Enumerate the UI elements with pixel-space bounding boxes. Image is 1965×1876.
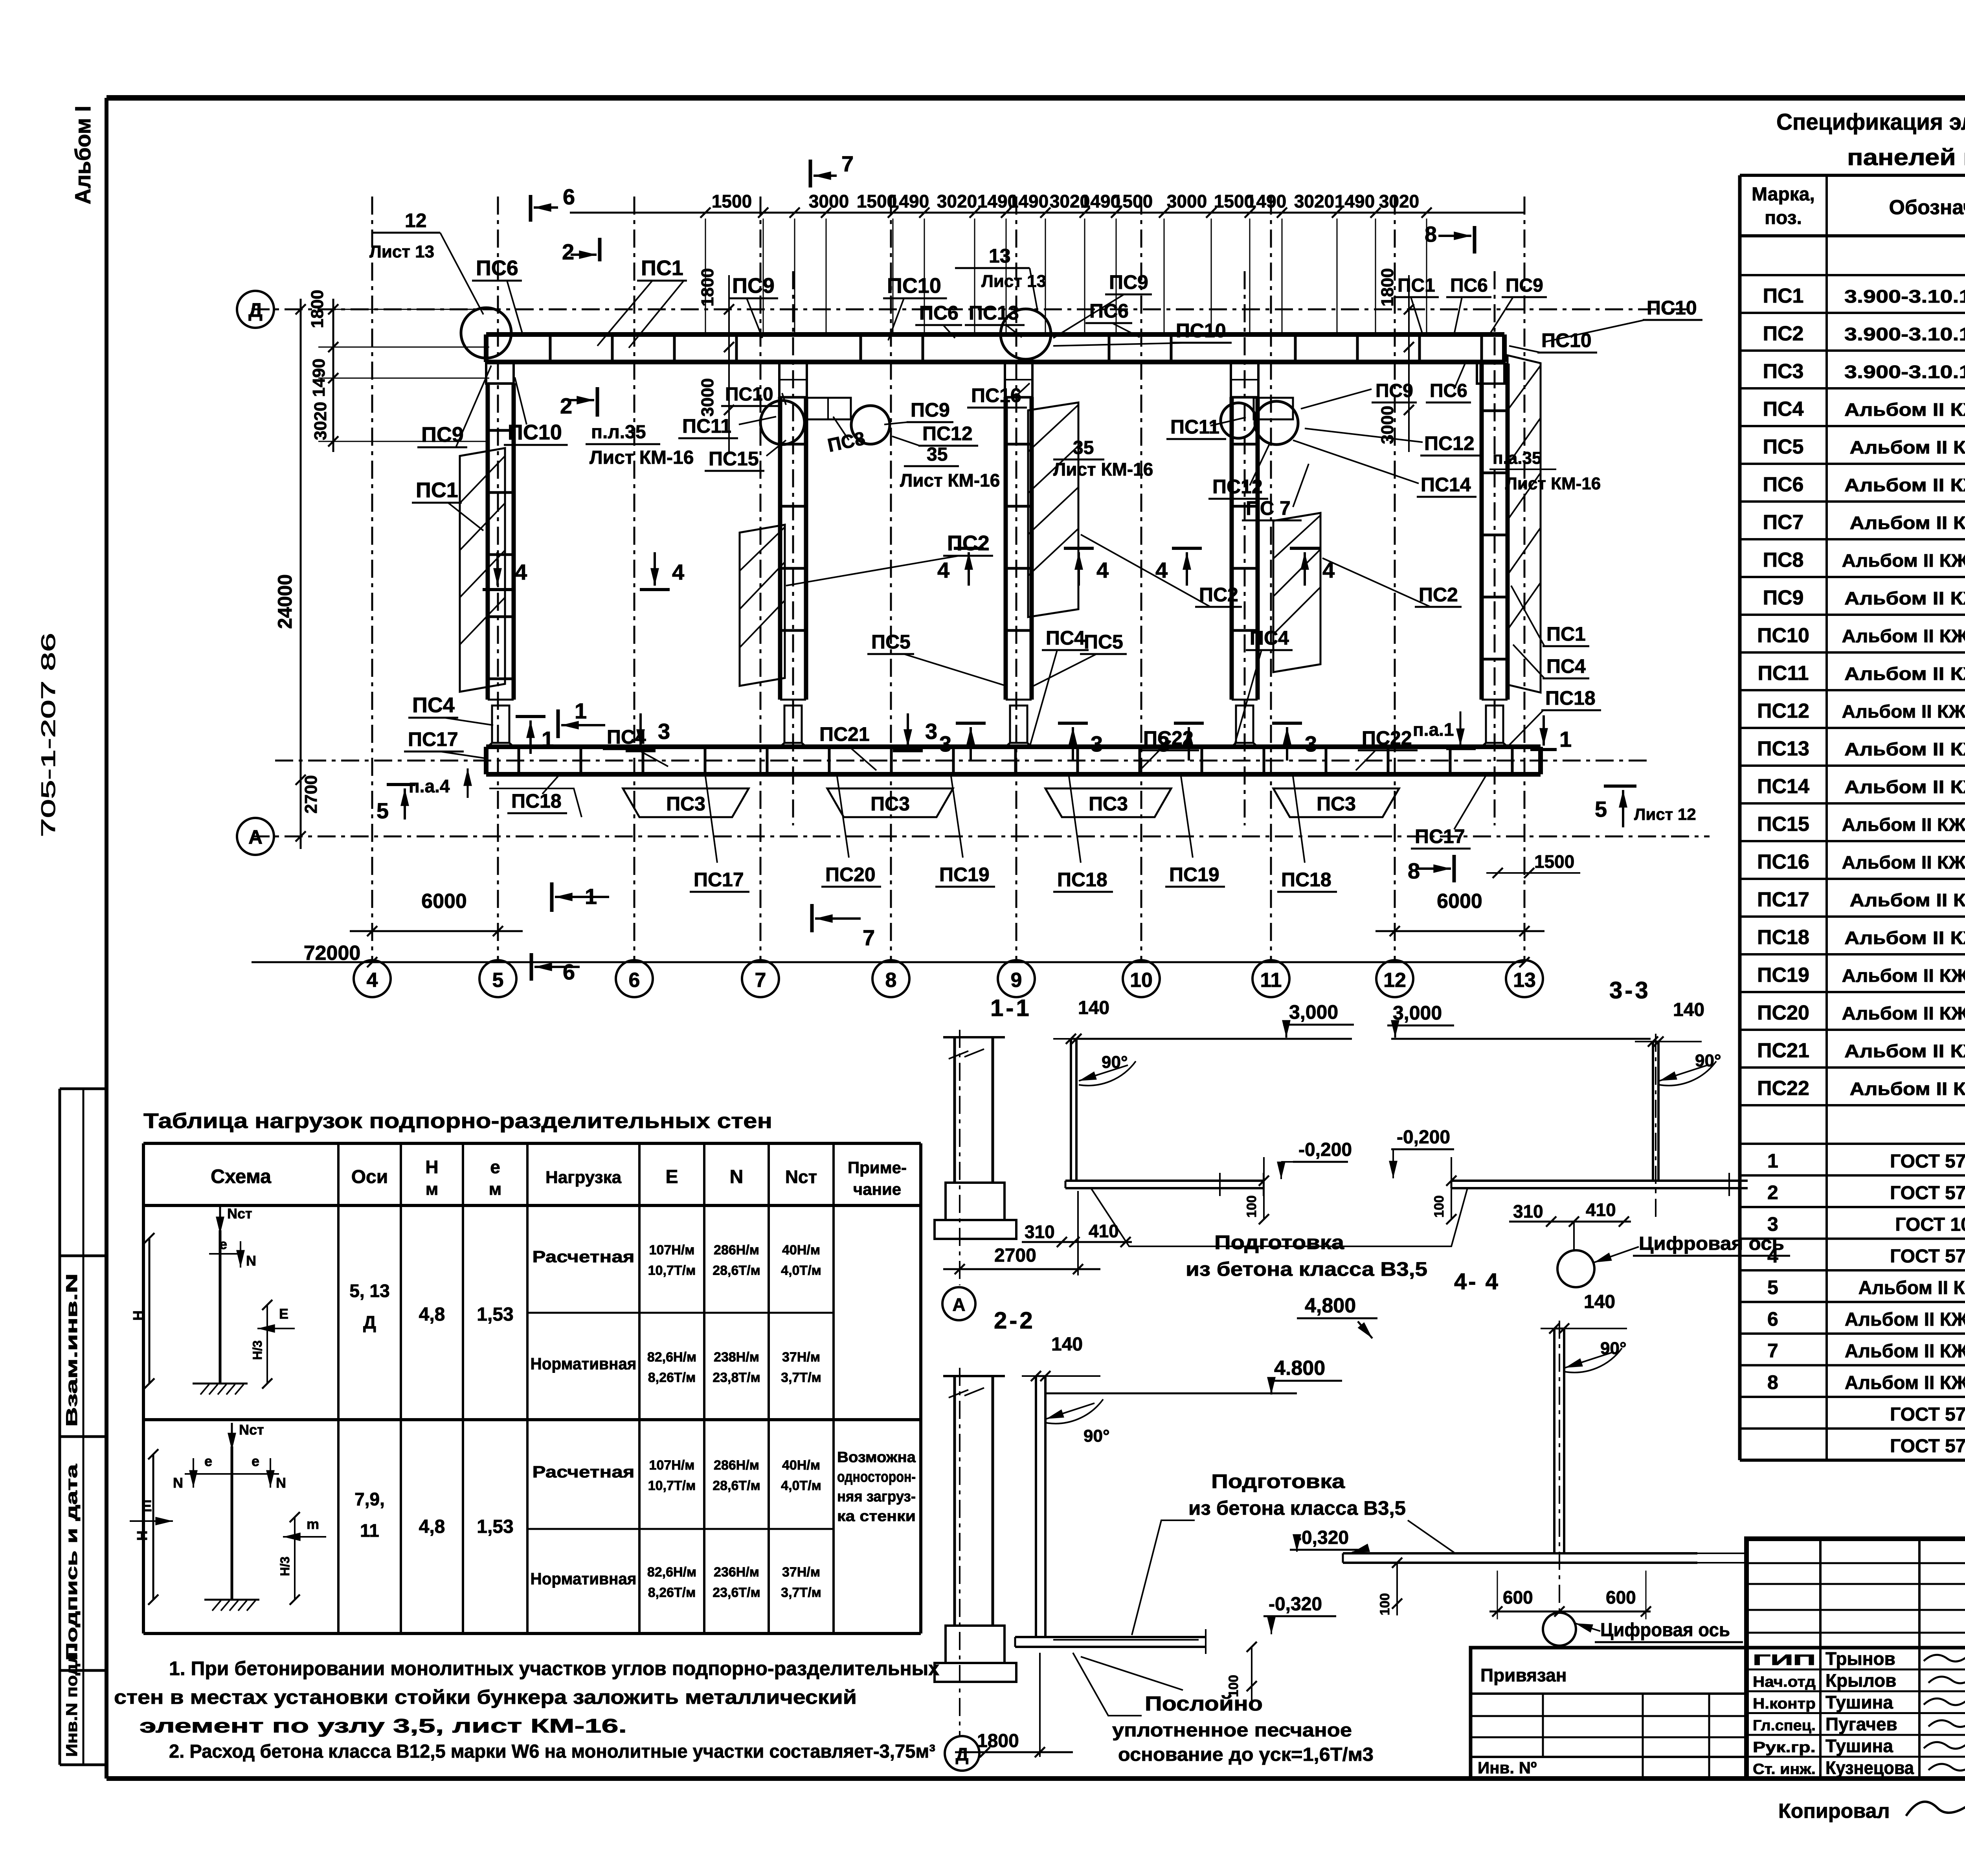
svg-text:Обозначение: Обозначение (1889, 196, 1965, 219)
svg-text:100: 100 (1244, 1195, 1259, 1218)
svg-text:ПС16: ПС16 (1757, 851, 1809, 873)
svg-text:ПС1: ПС1 (416, 478, 458, 502)
section 4-4 axis circle (1543, 1613, 1576, 1646)
svg-text:ПС7: ПС7 (1763, 511, 1804, 534)
svg-text:ПС8: ПС8 (1763, 549, 1804, 571)
svg-text:310: 310 (1513, 1201, 1543, 1222)
svg-text:Лист КМ-16: Лист КМ-16 (900, 470, 1000, 491)
svg-text:286Н/м: 286Н/м (714, 1243, 759, 1258)
svg-text:140: 140 (1673, 1000, 1704, 1020)
svg-text:Тушина: Тушина (1825, 1692, 1893, 1712)
svg-text:Подготовка: Подготовка (1211, 1470, 1345, 1492)
section 1-1 podgotovka wedge (1091, 1188, 1467, 1246)
svg-text:100: 100 (1377, 1593, 1392, 1615)
svg-text:Nст: Nст (227, 1205, 252, 1222)
svg-text:5, 13: 5, 13 (349, 1281, 389, 1301)
svg-text:Альбом II КЖ.И. 39.00-01: Альбом II КЖ.И. 39.00-01 (1842, 701, 1965, 722)
svg-text:90°: 90° (1084, 1426, 1110, 1446)
svg-text:панелей подпорно-разделительны: панелей подпорно-разделительных стен (1847, 145, 1965, 170)
svg-text:односторон-: односторон- (837, 1469, 916, 1485)
svg-text:ПС10: ПС10 (508, 421, 562, 444)
margin stamp boxes (60, 1088, 107, 1090)
svg-text:ПС6: ПС6 (919, 302, 959, 324)
section 2-2 axis circle D (945, 1736, 979, 1771)
svg-text:1800: 1800 (977, 1731, 1019, 1751)
svg-text:28,6Т/м: 28,6Т/м (713, 1263, 760, 1278)
svg-text:2700: 2700 (301, 775, 321, 814)
svg-text:ПС19: ПС19 (939, 864, 990, 886)
svg-text:Н: Н (425, 1157, 438, 1177)
svg-text:3: 3 (925, 719, 937, 744)
section 4-4 base slab (1343, 1552, 1697, 1554)
section 1-1 wall (1070, 1039, 1072, 1181)
svg-text:ПС4: ПС4 (412, 693, 455, 717)
svg-text:Альбом II КЖ.И.42.00-01: Альбом II КЖ.И.42.00-01 (1842, 965, 1965, 986)
svg-text:1,53: 1,53 (477, 1516, 513, 1537)
svg-text:Альбом II КЖ.И.42.00: Альбом II КЖ.И.42.00 (1850, 890, 1965, 910)
svg-text:Н/3: Н/3 (250, 1340, 264, 1360)
svg-text:6: 6 (563, 184, 575, 209)
svg-text:Альбом II КЖ.И. 40.00-01: Альбом II КЖ.И. 40.00-01 (1842, 852, 1965, 873)
svg-text:3.900-3.10.1 05.00-04: 3.900-3.10.1 05.00-04 (1844, 324, 1965, 344)
section 4-4 90 deg (1565, 1348, 1622, 1373)
svg-text:8,26Т/м: 8,26Т/м (648, 1585, 696, 1600)
svg-text:Крылов: Крылов (1825, 1670, 1896, 1691)
svg-text:е: е (490, 1157, 500, 1177)
svg-text:ГОСТ 103-76*: ГОСТ 103-76* (1895, 1215, 1965, 1235)
svg-text:Лист 12: Лист 12 (1634, 805, 1696, 823)
svg-text:п.а.4: п.а.4 (409, 776, 450, 796)
plan dim chain near wall2 (728, 275, 730, 452)
svg-text:100: 100 (1432, 1195, 1447, 1218)
svg-text:5: 5 (492, 969, 504, 992)
svg-text:3020: 3020 (1294, 191, 1334, 211)
svg-text:Nст: Nст (785, 1167, 817, 1187)
svg-text:3: 3 (939, 731, 951, 756)
svg-text:ПС14: ПС14 (1757, 775, 1809, 798)
svg-text:Альбом II КЖ.И.37.00-01: Альбом II КЖ.И.37.00-01 (1842, 550, 1965, 571)
svg-text:E: E (279, 1306, 288, 1322)
section 2-2 column (943, 1375, 1005, 1377)
svg-text:3000: 3000 (698, 378, 717, 417)
section 1-1 dim 2700 (1077, 1191, 1079, 1275)
svg-text:2-2: 2-2 (994, 1307, 1035, 1334)
plan top wall band (486, 332, 1504, 337)
svg-text:3000: 3000 (809, 191, 849, 211)
svg-text:Альбом II КЖ.И. 34.00: Альбом II КЖ.И. 34.00 (1844, 399, 1965, 420)
section 1-1 column (943, 1036, 1005, 1038)
svg-text:ПС17: ПС17 (694, 869, 744, 891)
svg-text:ПС9: ПС9 (732, 274, 775, 298)
section 4-4 axis line (1559, 1321, 1560, 1613)
plan hatched panel right wall (1508, 355, 1541, 693)
plan flags 4 (483, 588, 512, 591)
title block privyazan extension box (1471, 1648, 1746, 1779)
plan horizontal axis D (252, 309, 1694, 311)
svg-text:3020: 3020 (937, 191, 977, 211)
svg-text:3,000: 3,000 (1289, 1001, 1338, 1023)
svg-text:600: 600 (1606, 1587, 1636, 1608)
svg-text:Альбом II КЖ.И.35.00: Альбом II КЖ.И.35.00 (1850, 437, 1965, 458)
svg-text:3: 3 (1767, 1213, 1778, 1235)
svg-text:ПС1: ПС1 (1546, 623, 1586, 645)
svg-text:6: 6 (1767, 1308, 1778, 1330)
svg-text:ПС4: ПС4 (1546, 655, 1586, 677)
plan junction detail circle wall3 (1001, 309, 1051, 359)
plan dim chain near wall4 (1408, 275, 1410, 452)
svg-text:3,000: 3,000 (1393, 1002, 1442, 1024)
svg-text:ПС9: ПС9 (1375, 380, 1413, 401)
svg-text:ПС10: ПС10 (887, 274, 941, 298)
svg-text:Оси: Оси (351, 1167, 388, 1187)
svg-text:Расчетная: Расчетная (533, 1463, 635, 1481)
section 3-3 base slab (1451, 1180, 1748, 1182)
svg-text:из бетона класса В3,5: из бетона класса В3,5 (1188, 1497, 1406, 1519)
svg-text:28,6Т/м: 28,6Т/м (713, 1478, 760, 1493)
svg-text:ПС11: ПС11 (1170, 416, 1219, 438)
svg-text:элемент по узлу 3,5, лист КМ-1: элемент по узлу 3,5, лист КМ-16. (140, 1715, 627, 1737)
svg-text:ПС3: ПС3 (1763, 360, 1804, 383)
svg-text:ПС6: ПС6 (1763, 473, 1804, 496)
svg-text:3: 3 (658, 719, 670, 744)
svg-text:А: А (952, 1294, 965, 1315)
svg-text:8: 8 (1425, 222, 1437, 246)
plan hatched panel wall3 (1028, 402, 1078, 617)
svg-text:82,6Н/м: 82,6Н/м (647, 1350, 696, 1365)
plan hatched panel PS1 left wall (460, 448, 505, 692)
svg-text:7: 7 (863, 925, 875, 950)
svg-text:ПС20: ПС20 (825, 864, 876, 886)
svg-text:236Н/м: 236Н/м (714, 1565, 759, 1580)
svg-text:Н.контр: Н.контр (1753, 1696, 1816, 1712)
plan grid axis lines (371, 197, 373, 960)
svg-text:4,0Т/м: 4,0Т/м (781, 1263, 821, 1278)
svg-text:6000: 6000 (421, 890, 467, 913)
svg-text:ПС4: ПС4 (1763, 398, 1804, 421)
svg-text:Альбом II КЖ.И.37.00: Альбом II КЖ.И.37.00 (1850, 513, 1965, 533)
svg-text:ПС6: ПС6 (1450, 275, 1488, 296)
svg-text:5: 5 (376, 798, 389, 823)
section 2-2 column axis (959, 1368, 960, 1735)
plan bottom wall centerline (275, 760, 1651, 762)
svg-text:Альбом II КЖ.И. 39.00: Альбом II КЖ.И. 39.00 (1844, 663, 1965, 684)
svg-text:10,7Т/м: 10,7Т/м (648, 1478, 696, 1493)
svg-text:ПС9: ПС9 (1763, 586, 1804, 609)
svg-text:м: м (489, 1180, 502, 1199)
svg-text:ПС19: ПС19 (1169, 864, 1219, 886)
svg-text:ПС22: ПС22 (1143, 727, 1194, 749)
svg-text:3.900-3.10.1 02.00-03: 3.900-3.10.1 02.00-03 (1844, 362, 1965, 382)
plan flags 3 (626, 749, 656, 752)
plan wall centerlines (792, 271, 794, 825)
svg-text:ПС15: ПС15 (709, 448, 759, 470)
svg-text:140: 140 (1051, 1334, 1083, 1355)
section 1-1 dims 310 410 (1022, 1241, 1132, 1243)
svg-text:40Н/м: 40Н/м (782, 1458, 820, 1473)
svg-text:286Н/м: 286Н/м (714, 1458, 759, 1473)
plan bottom dim 6000 left (350, 930, 523, 932)
svg-text:ПС6: ПС6 (1089, 300, 1129, 322)
svg-text:4- 4: 4- 4 (1454, 1269, 1500, 1294)
svg-text:1490: 1490 (309, 358, 329, 397)
svg-text:72000: 72000 (304, 942, 361, 965)
svg-text:ПС18: ПС18 (1057, 869, 1107, 891)
svg-text:ГОСТ 5781-82*: ГОСТ 5781-82* (1890, 1246, 1965, 1267)
plan junction blocks below band (779, 362, 807, 397)
section 1-1 axis circle A (942, 1287, 975, 1320)
plan 24000 chain (300, 299, 302, 849)
svg-text:няя загруз-: няя загруз- (837, 1488, 916, 1505)
load table schema sketch 1 (219, 1230, 222, 1384)
svg-text:ПС18: ПС18 (1545, 687, 1596, 709)
svg-text:ПС10: ПС10 (1176, 320, 1226, 342)
svg-text:10: 10 (1130, 969, 1153, 992)
svg-text:Возможна: Возможна (837, 1449, 916, 1466)
svg-text:Нач.отд: Нач.отд (1753, 1674, 1816, 1690)
svg-text:1: 1 (542, 727, 554, 752)
svg-text:m: m (307, 1516, 319, 1532)
svg-text:107Н/м: 107Н/м (649, 1458, 695, 1473)
svg-text:ПС18: ПС18 (511, 790, 562, 812)
svg-text:ПС5: ПС5 (1763, 435, 1804, 458)
svg-text:5: 5 (1595, 797, 1607, 821)
svg-text:310: 310 (1025, 1222, 1055, 1242)
svg-text:1,53: 1,53 (477, 1304, 513, 1325)
svg-text:2. Расход бетона класса В12,5: 2. Расход бетона класса В12,5 марки W6 н… (169, 1741, 935, 1762)
svg-text:ГИП: ГИП (1753, 1652, 1816, 1668)
svg-text:ПС10: ПС10 (725, 384, 773, 405)
svg-text:ПС5: ПС5 (1084, 631, 1123, 653)
section 3-3 axis circle (1573, 1222, 1575, 1250)
section 1-1 base slab (1065, 1180, 1263, 1182)
svg-text:90°: 90° (1600, 1339, 1627, 1358)
svg-text:Альбом II КЖ.И. 44.00: Альбом II КЖ.И. 44.00 (1844, 1041, 1965, 1061)
section 3-3 wall (1652, 1042, 1654, 1181)
svg-text:11: 11 (360, 1520, 379, 1541)
svg-text:5: 5 (1767, 1277, 1778, 1299)
svg-text:1500: 1500 (712, 191, 752, 211)
svg-text:410: 410 (1089, 1221, 1119, 1241)
svg-text:Альбом II КЖ.И. 41.00-01: Альбом II КЖ.И. 41.00-01 (1842, 814, 1965, 835)
svg-text:7: 7 (1767, 1340, 1778, 1362)
svg-text:ГОСТ 5781-82*: ГОСТ 5781-82* (1890, 1151, 1965, 1172)
svg-text:3020: 3020 (1379, 191, 1419, 211)
section 1-1 level 3000 (1076, 1038, 1352, 1040)
svg-text:7: 7 (755, 969, 766, 992)
svg-text:8: 8 (885, 969, 897, 992)
svg-text:N: N (173, 1475, 183, 1491)
svg-text:Подготовка: Подготовка (1214, 1231, 1344, 1253)
svg-text:уплотненное песчаное: уплотненное песчаное (1112, 1720, 1352, 1741)
svg-text:3000: 3000 (1167, 191, 1207, 211)
svg-text:23,6Т/м: 23,6Т/м (713, 1585, 760, 1600)
section 3-3 dim 100 (1451, 1157, 1452, 1219)
plan bottom dim 72000 (252, 961, 1525, 963)
svg-text:ПС12: ПС12 (922, 423, 973, 445)
svg-text:35: 35 (1073, 437, 1094, 458)
svg-text:ПС12: ПС12 (1757, 700, 1809, 722)
svg-text:82,6Н/м: 82,6Н/м (647, 1565, 696, 1580)
svg-text:ПС14: ПС14 (1421, 474, 1471, 496)
svg-text:ПС5: ПС5 (871, 631, 911, 653)
svg-text:-0,320: -0,320 (1295, 1527, 1349, 1548)
svg-text:ПС2: ПС2 (1763, 322, 1804, 345)
svg-text:8: 8 (1408, 858, 1420, 883)
svg-text:140: 140 (1078, 998, 1109, 1018)
plan junction detail circles wall2 (760, 401, 804, 445)
svg-text:3020: 3020 (311, 402, 330, 440)
svg-text:ПС3: ПС3 (870, 793, 910, 815)
svg-text:N: N (246, 1253, 256, 1269)
svg-text:1. При бетонировании монолитны: 1. При бетонировании монолитных участков… (169, 1657, 939, 1679)
svg-text:4: 4 (367, 969, 378, 992)
svg-text:Инв.N подл.: Инв.N подл. (63, 1647, 81, 1757)
svg-text:м: м (426, 1180, 439, 1199)
svg-text:ПС17: ПС17 (1757, 888, 1809, 911)
section 3-3 dims 310 410 (1509, 1221, 1631, 1223)
svg-text:Трынов: Трынов (1825, 1648, 1895, 1669)
plan hatched panel wall4 (1273, 513, 1320, 672)
plan left dim chain (332, 299, 334, 452)
svg-text:37Н/м: 37Н/м (782, 1350, 820, 1365)
section 2-2 base slab (1015, 1636, 1206, 1638)
svg-text:ПС9: ПС9 (911, 399, 950, 421)
svg-text:Расчетная: Расчетная (533, 1248, 635, 1266)
plan horizontal axis A (252, 836, 1710, 838)
plan flag 5 left (387, 783, 415, 786)
svg-text:12: 12 (405, 209, 427, 232)
svg-text:37Н/м: 37Н/м (782, 1565, 820, 1580)
plan flag 5 list12 right (1604, 785, 1636, 788)
svg-text:Цифровая ось: Цифровая ось (1639, 1233, 1784, 1254)
svg-text:Лист 13: Лист 13 (369, 242, 434, 261)
svg-text:13: 13 (989, 245, 1011, 267)
svg-text:1800: 1800 (698, 268, 717, 307)
svg-text:Альбом II КЖ.И. 43.00: Альбом II КЖ.И. 43.00 (1844, 928, 1965, 948)
svg-text:ПС 7: ПС 7 (1246, 497, 1291, 519)
sheet frame (107, 95, 1965, 101)
svg-text:Лист КМ-16: Лист КМ-16 (589, 447, 694, 468)
svg-text:е: е (204, 1453, 212, 1469)
svg-text:3-3: 3-3 (1609, 977, 1651, 1003)
svg-text:40Н/м: 40Н/м (782, 1243, 820, 1258)
svg-text:Подпись и дата: Подпись и дата (63, 1464, 81, 1661)
svg-text:1: 1 (1767, 1150, 1778, 1172)
svg-text:107Н/м: 107Н/м (649, 1243, 695, 1258)
svg-text:ПС13: ПС13 (969, 302, 1019, 324)
svg-text:N: N (730, 1167, 744, 1187)
svg-text:Кузнецова: Кузнецова (1825, 1758, 1914, 1778)
svg-text:4,8: 4,8 (419, 1516, 445, 1537)
svg-text:стен в местах установки стойки: стен в местах установки стойки бункера з… (114, 1686, 857, 1708)
svg-text:8: 8 (1767, 1371, 1778, 1393)
section 2-2 dim 140 (1031, 1371, 1041, 1381)
load table schema sketch 2 (231, 1446, 233, 1600)
svg-text:9: 9 (1011, 969, 1022, 992)
svg-text:1: 1 (575, 698, 587, 723)
svg-text:7,9,: 7,9, (354, 1489, 385, 1509)
svg-text:Альбом I: Альбом I (70, 106, 95, 204)
title block small grid top left (1746, 1562, 1965, 1564)
svg-text:Д: Д (248, 299, 263, 321)
svg-text:п.а.1: п.а.1 (1413, 719, 1454, 740)
svg-text:2700: 2700 (994, 1245, 1036, 1266)
svg-text:ПС19: ПС19 (1757, 964, 1809, 987)
svg-text:Приме-: Приме- (848, 1158, 907, 1177)
svg-text:Привязан: Привязан (1480, 1665, 1567, 1685)
svg-text:Марка,: Марка, (1752, 184, 1815, 205)
plan bottom wall band (486, 744, 1541, 749)
svg-text:Н: Н (130, 1310, 146, 1321)
svg-text:Ст. инж.: Ст. инж. (1753, 1761, 1816, 1778)
title block outer (1746, 1539, 1965, 1779)
svg-text:п.а.35: п.а.35 (1493, 448, 1541, 468)
svg-text:ПС2: ПС2 (1419, 584, 1458, 606)
section 2-2 dim 1800 (1039, 1653, 1041, 1757)
svg-text:7: 7 (841, 151, 854, 176)
svg-text:ПС12: ПС12 (1212, 476, 1263, 498)
svg-text:N: N (276, 1475, 286, 1491)
svg-text:е: е (252, 1453, 259, 1469)
svg-text:140: 140 (1584, 1292, 1615, 1312)
svg-text:E: E (141, 1497, 152, 1515)
svg-text:ПС17: ПС17 (1415, 825, 1465, 847)
svg-text:ПС9: ПС9 (1109, 271, 1148, 293)
svg-text:4: 4 (937, 558, 949, 582)
svg-text:ПС2: ПС2 (947, 531, 990, 555)
svg-text:1-1: 1-1 (990, 995, 1032, 1021)
svg-text:Альбом II КЖ.И.51.00-02: Альбом II КЖ.И.51.00-02 (1845, 1341, 1965, 1362)
svg-text:6: 6 (563, 959, 575, 984)
svg-text:чание: чание (853, 1180, 901, 1198)
svg-text:ПС1: ПС1 (641, 256, 683, 280)
section 3-3 90 deg (1659, 1061, 1716, 1086)
plan bottom dim 6000 right (1375, 930, 1544, 932)
svg-text:1490: 1490 (1246, 191, 1286, 211)
svg-text:90°: 90° (1102, 1053, 1128, 1072)
svg-text:п.л.35: п.л.35 (591, 422, 646, 443)
svg-text:ПС16: ПС16 (971, 384, 1021, 406)
load table grid (143, 1142, 921, 1145)
svg-text:ПС17: ПС17 (408, 728, 458, 750)
svg-text:-0,320: -0,320 (1269, 1594, 1322, 1615)
svg-text:Инв. Nº: Инв. Nº (1478, 1758, 1537, 1777)
svg-text:ПС6: ПС6 (476, 256, 518, 280)
svg-text:Тушина: Тушина (1825, 1736, 1893, 1756)
svg-text:Пугачев: Пугачев (1825, 1714, 1897, 1735)
plan axis circles 4-13 (354, 960, 391, 997)
svg-text:поз.: поз. (1765, 208, 1802, 228)
svg-text:1500: 1500 (1534, 851, 1574, 872)
section 2-2 dim 100 (1251, 1647, 1252, 1702)
plan junction detail circles wall4 (1221, 403, 1256, 438)
svg-text:Д: Д (363, 1312, 376, 1332)
svg-text:4,800: 4,800 (1305, 1294, 1356, 1317)
svg-text:ПС20: ПС20 (1757, 1001, 1809, 1024)
svg-text:ПС22: ПС22 (1757, 1077, 1809, 1100)
svg-text:Альбом II КЖ.И.51.00-01: Альбом II КЖ.И.51.00-01 (1845, 1309, 1965, 1330)
svg-text:4: 4 (1096, 558, 1109, 582)
svg-text:из бетона класса В3,5: из бетона класса В3,5 (1186, 1258, 1427, 1280)
svg-text:ГОСТ 5781-82*: ГОСТ 5781-82* (1890, 1404, 1965, 1425)
svg-text:1: 1 (1559, 727, 1572, 752)
svg-text:3.900-3.10.1 05.00-02: 3.900-3.10.1 05.00-02 (1844, 286, 1965, 307)
section 4-4 dims 600 600 (1489, 1611, 1651, 1613)
svg-text:Цифровая ось: Цифровая ось (1600, 1620, 1730, 1641)
svg-text:Д: Д (956, 1744, 969, 1764)
spec table grid (1740, 174, 1965, 177)
svg-text:3,7Т/м: 3,7Т/м (781, 1585, 821, 1600)
